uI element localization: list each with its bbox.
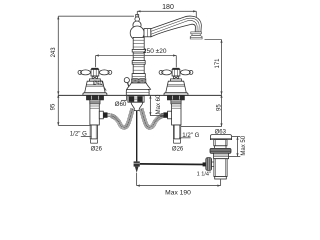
- bonnet: [90, 79, 101, 81]
- flex hose left: [111, 109, 133, 128]
- handle stem: [92, 76, 97, 79]
- drain shank: [214, 153, 229, 158]
- label 1/2 G left: [70, 131, 92, 138]
- dimension D26 right: [172, 140, 184, 153]
- spout column bulge ring 2: [132, 61, 145, 65]
- spout top nub: [136, 15, 139, 17]
- label 1/2 G right: [179, 132, 199, 139]
- label D40 with leader: [93, 81, 106, 91]
- spout outlet: [191, 32, 202, 34]
- under-deck nut: [86, 96, 103, 100]
- svg-text:250 ±20: 250 ±20: [143, 48, 167, 55]
- handle center knob: [91, 69, 99, 76]
- svg-text:Max 50: Max 50: [241, 135, 247, 155]
- svg-text:1 1/4": 1 1/4": [197, 172, 211, 178]
- drain waist: [215, 146, 226, 149]
- dimension 95 left: [50, 95, 91, 126]
- spout tube: [151, 16, 202, 37]
- side fitting: [99, 111, 103, 119]
- spout knurled nut: [132, 79, 146, 83]
- label D60 with leader: [115, 96, 127, 108]
- svg-text:Max 60: Max 60: [156, 94, 162, 114]
- threaded shank: [90, 100, 100, 104]
- dimension 95 right: [181, 95, 223, 127]
- supply pipe: [90, 125, 97, 139]
- spout column: [133, 37, 144, 78]
- counter/deck line: [58, 94, 221, 96]
- clevis nub to tailpipe: [212, 162, 214, 167]
- svg-text:Ø40: Ø40: [93, 81, 103, 87]
- spout under-deck nuts: [128, 96, 144, 102]
- svg-text:Ø26: Ø26: [172, 146, 184, 152]
- spout column bulge ring 1: [132, 49, 145, 52]
- drain clevis (pivot clamp): [206, 158, 212, 171]
- drain tailpipe: [214, 159, 227, 177]
- handle right lobe: [108, 70, 112, 74]
- drain upper body: [214, 140, 227, 146]
- dimension 243 vertical line: [51, 16, 134, 94]
- spout base flange: [126, 89, 149, 95]
- dimension 171 right: [205, 40, 223, 95]
- dimension Max 190 bottom: [137, 173, 221, 197]
- svg-text:Ø26: Ø26: [91, 146, 103, 152]
- spout column lower flare: [132, 74, 145, 79]
- drain locknut: [210, 148, 231, 153]
- handle left lobe: [78, 70, 82, 74]
- spout lift knob: [124, 78, 129, 83]
- svg-text:243: 243: [51, 47, 57, 58]
- spout bell: [127, 83, 151, 89]
- dimension Max 60: [149, 94, 163, 116]
- flex hose right: [141, 109, 163, 128]
- rod lower pin: [135, 167, 139, 173]
- dimension Max 50: [229, 135, 247, 156]
- spout big ball joint: [130, 26, 144, 40]
- svg-text:180: 180: [162, 4, 174, 11]
- svg-text:95: 95: [217, 104, 223, 111]
- dimension 180 top: [137, 4, 196, 17]
- svg-text:Ø60: Ø60: [115, 101, 127, 108]
- rod coupling: [134, 161, 140, 166]
- spout knob ball: [135, 17, 140, 22]
- valve body: [90, 104, 99, 125]
- svg-text:171: 171: [215, 58, 221, 69]
- escutcheon: [85, 81, 106, 93]
- handle top cap: [91, 68, 98, 70]
- dimension D26 left: [91, 140, 103, 153]
- rod end block: [203, 162, 206, 166]
- drain tail rim: [215, 177, 227, 180]
- horizontal rod to drain: [140, 163, 205, 166]
- svg-text:95: 95: [50, 103, 56, 110]
- escutcheon base: [83, 93, 107, 95]
- svg-text:Ø63: Ø63: [215, 129, 227, 135]
- spout upper ball: [133, 21, 141, 29]
- svg-text:Max 190: Max 190: [165, 189, 191, 196]
- dimension 250 +-20: [96, 48, 177, 68]
- spout arm collar: [144, 29, 151, 37]
- drain flange: [210, 135, 231, 140]
- pull rod: [136, 111, 138, 162]
- spout under-deck bell connector: [131, 102, 143, 110]
